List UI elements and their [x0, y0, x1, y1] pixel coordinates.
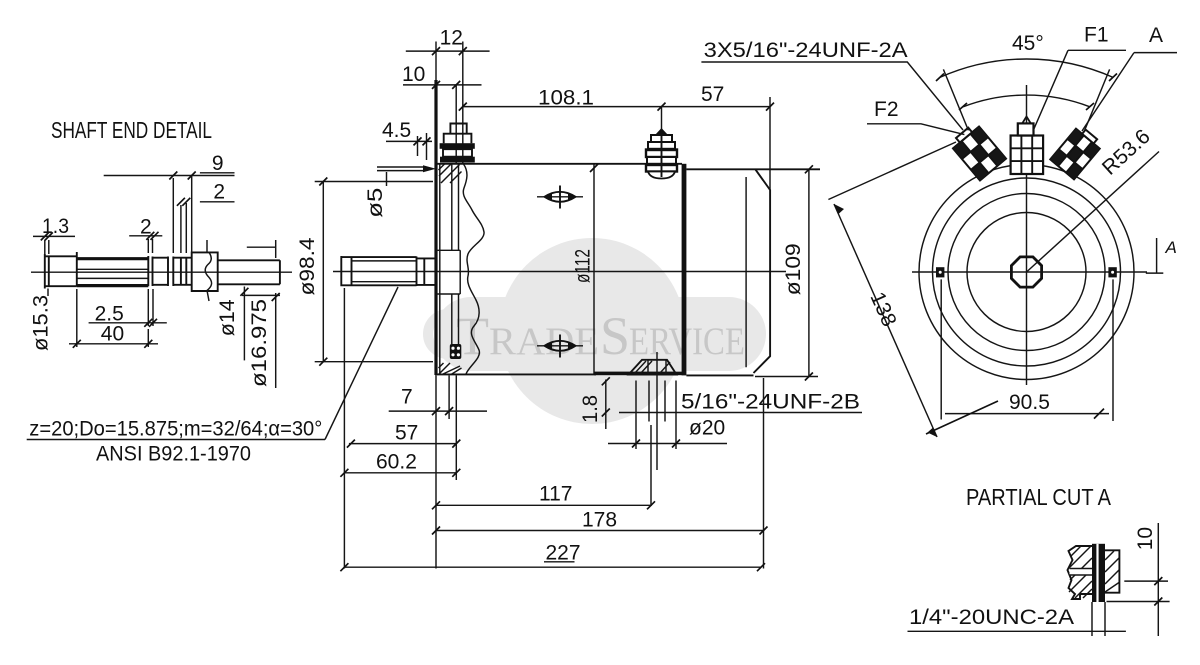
svg-text:ø15.3: ø15.3 [30, 295, 53, 351]
radius R53.6 leader [1027, 152, 1160, 273]
svg-text:F1: F1 [1084, 24, 1109, 47]
end view crosshair [912, 271, 1147, 273]
shaft collar section [192, 252, 218, 291]
lower brush terminal [450, 344, 462, 359]
terminal F2 (left) [949, 122, 1006, 181]
svg-text:2: 2 [213, 181, 225, 204]
svg-text:z=20;Do=15.875;m=32/64;α=30°: z=20;Do=15.875;m=32/64;α=30° [29, 418, 322, 441]
svg-text:57: 57 [701, 83, 724, 106]
svg-text:A: A [1165, 238, 1177, 257]
flange block right [1105, 550, 1119, 592]
left block joint band [1070, 569, 1093, 576]
shaft axis line [31, 271, 292, 273]
terminal F1 (top) [1011, 117, 1044, 175]
casting inner verticals [440, 164, 459, 374]
end cap inner line [745, 177, 747, 367]
svg-text:ø16.975: ø16.975 [248, 299, 271, 387]
svg-text:117: 117 [539, 483, 572, 506]
watermark C ring [428, 314, 468, 354]
housing circle 2 [933, 178, 1121, 366]
shaft plain end section [45, 254, 77, 289]
svg-text:R53.6: R53.6 [1098, 125, 1155, 180]
left clamp bolt [936, 267, 944, 277]
output shaft threaded section [341, 256, 416, 286]
svg-text:ø98.4: ø98.4 [296, 237, 319, 295]
svg-text:ø109: ø109 [782, 243, 805, 295]
collar break line [205, 252, 211, 301]
svg-text:10: 10 [1134, 527, 1157, 550]
outer housing circle [919, 165, 1134, 380]
right clamp bolt [1108, 267, 1116, 277]
nut block left with break edge [1068, 546, 1093, 599]
svg-text:F2: F2 [874, 98, 899, 121]
angular dimension arcs 45 [940, 59, 1113, 77]
terminal stud top right [646, 128, 677, 179]
svg-text:227: 227 [546, 542, 581, 565]
shaft spline section [77, 259, 149, 286]
motor axis centerline [333, 271, 786, 273]
body top line [437, 163, 682, 165]
stud extension lines [1092, 602, 1105, 636]
svg-text:PARTIAL CUT A: PARTIAL CUT A [966, 484, 1112, 510]
housing circle 4 [967, 213, 1086, 332]
svg-text:ERVICE: ERVICE [629, 320, 745, 363]
dimension 138 [834, 204, 937, 437]
svg-text:5/16"-24UNF-2B: 5/16"-24UNF-2B [681, 391, 860, 414]
stud shank section [1092, 544, 1105, 602]
stud thread extension lines [649, 352, 665, 470]
svg-text:A: A [1149, 24, 1163, 47]
lower eye symbol [537, 335, 583, 358]
svg-text:12: 12 [440, 26, 463, 49]
flange hatch bottom [439, 363, 462, 375]
mounting flange face [434, 80, 437, 375]
svg-text:45°: 45° [1012, 32, 1044, 55]
svg-text:60.2: 60.2 [376, 451, 417, 474]
svg-text:3X5/16"-24UNF-2A: 3X5/16"-24UNF-2A [704, 39, 908, 62]
svg-text:ø20: ø20 [689, 417, 725, 440]
svg-text:4.5: 4.5 [382, 119, 411, 142]
shaft shoulder step [417, 258, 437, 285]
brush stud terminal front [444, 124, 472, 144]
body bottom line [437, 373, 596, 375]
svg-text:RADE: RADE [489, 320, 599, 363]
shaft mid section [173, 257, 191, 287]
watermark group placeholder [428, 238, 766, 424]
bolt extension lines [941, 279, 1113, 421]
svg-text:ø14: ø14 [216, 299, 239, 336]
commutator end bell joint [682, 164, 687, 376]
bottom terminal stud [629, 360, 677, 375]
casting wavy edge [463, 164, 484, 374]
svg-text:90.5: 90.5 [1009, 391, 1050, 414]
svg-text:7: 7 [401, 386, 413, 409]
end cap outline [686, 169, 820, 375]
svg-text:57: 57 [395, 422, 418, 445]
svg-text:10: 10 [402, 63, 425, 86]
angular extension lines [943, 69, 968, 130]
svg-text:138: 138 [865, 289, 900, 330]
svg-text:SHAFT END DETAIL: SHAFT END DETAIL [51, 117, 212, 143]
shaft right section [218, 260, 280, 284]
svg-text:1.8: 1.8 [579, 395, 602, 423]
section marker A [1146, 238, 1164, 273]
shaft hub boss [436, 250, 460, 294]
center shaft octagon [1011, 257, 1041, 287]
housing circle 3 [948, 194, 1105, 351]
terminal A (right) [1050, 125, 1103, 180]
svg-text:40: 40 [101, 323, 124, 346]
flange hatch top [439, 164, 462, 183]
svg-text:ø112: ø112 [572, 249, 595, 283]
shaft groove [153, 257, 169, 287]
watermark band [434, 297, 766, 371]
svg-text:178: 178 [582, 509, 617, 532]
hole diameter 5 feature [377, 167, 423, 171]
watermark disc [499, 238, 685, 424]
svg-text:ANSI B92.1-1970: ANSI B92.1-1970 [96, 443, 251, 466]
svg-text:9: 9 [212, 152, 224, 175]
upper eye symbol [537, 186, 583, 209]
svg-text:1/4"-20UNC-2A: 1/4"-20UNC-2A [909, 606, 1074, 629]
svg-text:ø5: ø5 [364, 188, 387, 218]
body middle seam [593, 164, 595, 374]
spline leader line [325, 287, 398, 440]
svg-text:S: S [600, 306, 630, 366]
